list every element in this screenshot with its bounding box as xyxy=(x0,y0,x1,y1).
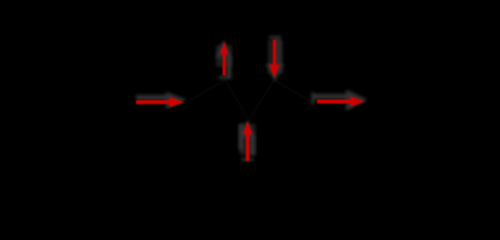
top-left red up arrow xyxy=(220,42,228,76)
gray arrow shadows xyxy=(136,36,368,161)
right horizontal gray arrow with tail crossbar xyxy=(312,90,368,112)
top-right gray down arrow xyxy=(266,36,284,82)
faint smudges under arrows xyxy=(216,40,283,155)
red arrows xyxy=(136,40,365,162)
bottom gray up arrow xyxy=(239,120,256,161)
top-right red down arrow xyxy=(269,40,280,78)
right red arrow xyxy=(317,96,365,106)
left horizontal gray arrow xyxy=(136,92,187,110)
left red arrow xyxy=(136,97,184,107)
molecule skeleton (nearly invisible) xyxy=(187,80,312,120)
bottom red up arrow xyxy=(243,121,252,161)
top-left gray up arrow xyxy=(216,40,232,80)
